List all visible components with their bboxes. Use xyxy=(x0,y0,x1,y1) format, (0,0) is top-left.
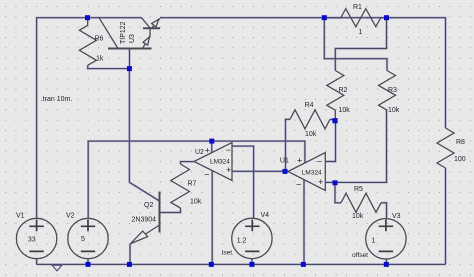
svg-text:R3: R3 xyxy=(388,87,397,94)
svg-text:100: 100 xyxy=(454,156,466,163)
svg-text:1k: 1k xyxy=(96,56,104,63)
svg-text:V2: V2 xyxy=(66,213,75,220)
svg-text:.tran 10m.: .tran 10m. xyxy=(41,96,73,103)
svg-text:TIP122: TIP122 xyxy=(120,21,127,44)
svg-text:10k: 10k xyxy=(305,131,317,138)
svg-text:V1: V1 xyxy=(16,213,25,220)
svg-text:1.2: 1.2 xyxy=(237,238,247,245)
svg-text:R7: R7 xyxy=(188,181,197,188)
svg-text:LM324: LM324 xyxy=(302,170,322,177)
svg-text:U2: U2 xyxy=(195,149,204,156)
svg-text:−: − xyxy=(226,145,231,155)
svg-text:10k: 10k xyxy=(388,107,400,114)
svg-text:R5: R5 xyxy=(354,186,363,193)
svg-text:1: 1 xyxy=(359,29,363,36)
svg-text:33: 33 xyxy=(28,236,36,243)
svg-text:−: − xyxy=(317,156,322,166)
svg-text:Iset: Iset xyxy=(222,250,233,257)
svg-text:+: + xyxy=(318,177,323,187)
svg-text:+: + xyxy=(297,156,302,166)
svg-text:U3: U3 xyxy=(129,34,136,43)
svg-text:R6: R6 xyxy=(95,36,104,43)
svg-text:10k: 10k xyxy=(352,213,364,220)
svg-text:−: − xyxy=(296,179,301,189)
svg-text:offset: offset xyxy=(352,252,368,259)
svg-text:10k: 10k xyxy=(339,107,351,114)
svg-text:R8: R8 xyxy=(456,139,465,146)
svg-text:5: 5 xyxy=(81,236,85,243)
svg-text:V3: V3 xyxy=(392,213,401,220)
svg-text:U1: U1 xyxy=(280,158,289,165)
svg-text:10k: 10k xyxy=(190,198,202,205)
svg-text:1: 1 xyxy=(372,238,376,245)
svg-text:V4: V4 xyxy=(261,212,270,219)
svg-text:R4: R4 xyxy=(305,102,314,109)
svg-text:−: − xyxy=(204,170,209,180)
svg-text:+: + xyxy=(226,165,231,175)
svg-text:R2: R2 xyxy=(339,87,348,94)
svg-text:2N3904: 2N3904 xyxy=(132,217,157,224)
svg-text:Q2: Q2 xyxy=(144,202,153,209)
svg-text:R1: R1 xyxy=(353,4,362,11)
svg-text:+: + xyxy=(205,146,210,156)
